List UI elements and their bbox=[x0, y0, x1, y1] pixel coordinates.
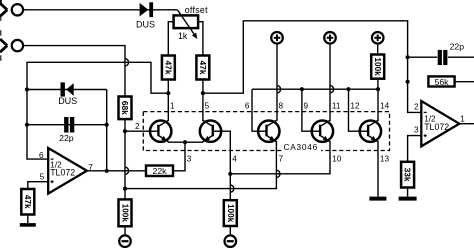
svg-text:100k: 100k bbox=[373, 57, 382, 76]
svg-text:47k: 47k bbox=[163, 61, 173, 75]
svg-text:6: 6 bbox=[39, 151, 44, 160]
svg-text:68k: 68k bbox=[120, 101, 130, 115]
svg-text:1: 1 bbox=[170, 102, 175, 111]
svg-text:9: 9 bbox=[304, 102, 309, 111]
svg-text:TL072: TL072 bbox=[424, 122, 449, 132]
svg-text:12: 12 bbox=[350, 102, 360, 111]
svg-text:8: 8 bbox=[279, 102, 284, 111]
svg-text:DUS: DUS bbox=[58, 96, 77, 106]
svg-text:7: 7 bbox=[279, 154, 284, 163]
svg-text:4: 4 bbox=[232, 154, 237, 163]
svg-text:100k: 100k bbox=[226, 204, 235, 223]
svg-text:13: 13 bbox=[380, 154, 390, 163]
svg-text:3: 3 bbox=[187, 154, 192, 163]
svg-text:1k: 1k bbox=[178, 31, 188, 41]
svg-text:56k: 56k bbox=[434, 77, 449, 87]
svg-text:14: 14 bbox=[380, 102, 390, 111]
svg-text:CA3046: CA3046 bbox=[284, 142, 318, 152]
svg-text:100k: 100k bbox=[121, 204, 130, 223]
svg-text:3: 3 bbox=[414, 126, 419, 135]
svg-text:1: 1 bbox=[460, 115, 465, 124]
svg-text:TL072: TL072 bbox=[50, 167, 75, 177]
svg-text:5: 5 bbox=[205, 102, 210, 111]
svg-text:DUS: DUS bbox=[136, 20, 155, 30]
svg-text:22k: 22k bbox=[152, 166, 167, 176]
svg-text:2: 2 bbox=[135, 122, 140, 131]
svg-text:5: 5 bbox=[40, 173, 45, 182]
svg-text:11: 11 bbox=[332, 102, 341, 111]
svg-text:22p: 22p bbox=[59, 133, 74, 143]
svg-text:6: 6 bbox=[245, 102, 250, 111]
svg-text:22p: 22p bbox=[450, 41, 465, 51]
svg-text:47k: 47k bbox=[23, 195, 33, 209]
svg-text:10: 10 bbox=[332, 154, 342, 163]
svg-text:offset: offset bbox=[185, 5, 208, 15]
svg-text:47k: 47k bbox=[198, 61, 208, 75]
svg-text:33k: 33k bbox=[403, 168, 413, 182]
svg-text:2: 2 bbox=[414, 103, 419, 112]
